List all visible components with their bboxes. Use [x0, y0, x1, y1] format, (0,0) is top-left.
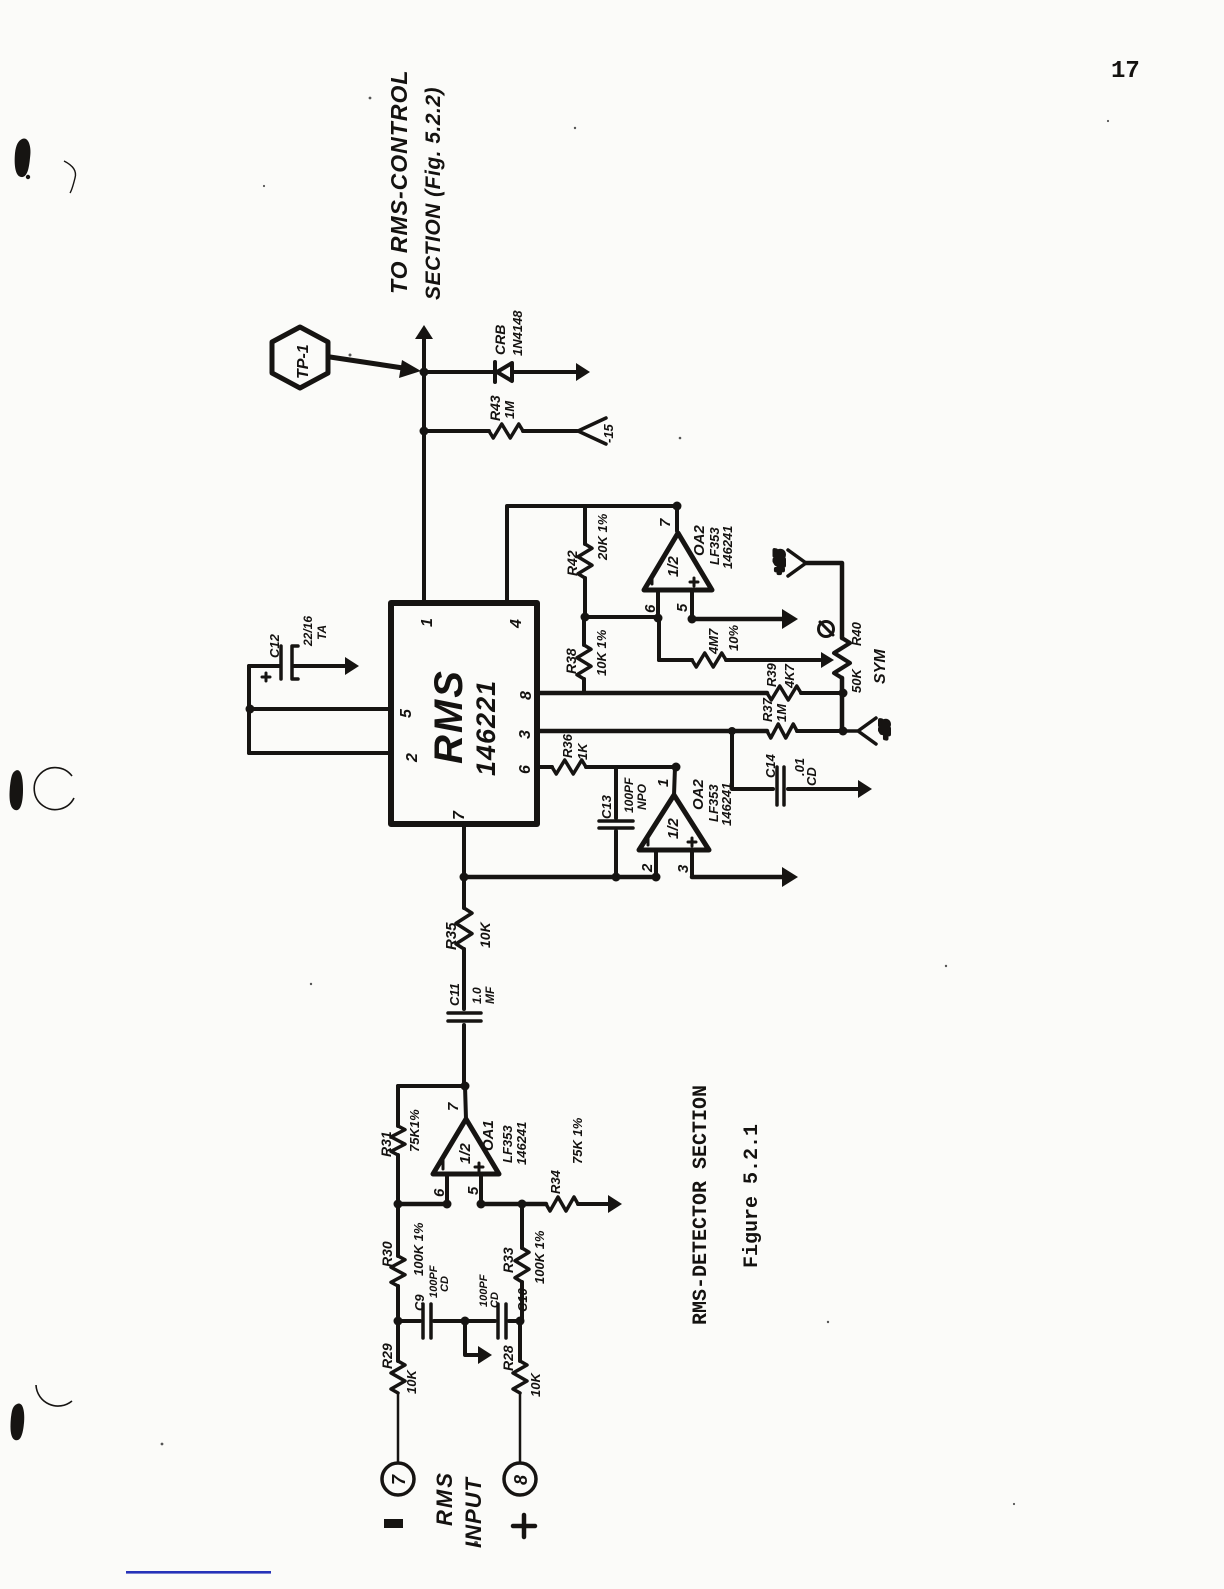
junction pin8 rail / supply rail — [839, 689, 848, 698]
RMS converter U1 146221 — [391, 603, 537, 824]
svg-text:C12: C12 — [267, 633, 282, 658]
wire: TP-1 arrow to output node — [330, 357, 421, 378]
wire: OA1 pin5 stub — [479, 1174, 483, 1204]
op-amp OA2 (1/2 LF353 146241) section B — [639, 795, 709, 850]
label C12 22/16 TA — [267, 616, 329, 658]
label C10 100PF CD — [478, 1274, 530, 1312]
junction R42/R38/pin6 — [581, 613, 590, 622]
svg-text:C14: C14 — [763, 753, 778, 778]
svg-text:R43: R43 — [487, 395, 503, 421]
svg-text:1.0: 1.0 — [470, 987, 484, 1004]
wire: R40 to +15 — [806, 563, 842, 638]
svg-text:10K 1%: 10K 1% — [594, 629, 609, 676]
test point TP-1 — [272, 327, 328, 388]
junction pin3 rail / -15 — [839, 727, 848, 736]
svg-text:8: 8 — [511, 1475, 531, 1485]
wire down into 4M7 — [659, 658, 692, 662]
label R39 4K7 — [764, 662, 797, 689]
wire: diode anode to common arrow — [514, 363, 590, 381]
svg-text:10K: 10K — [404, 1369, 419, 1394]
resistor R38 10K 1% — [577, 617, 591, 693]
wire: OA1 output stub — [465, 1086, 466, 1119]
label C11 1.0 MF — [447, 983, 497, 1006]
svg-text:R33: R33 — [500, 1247, 516, 1273]
paper speckles — [161, 97, 1110, 1545]
wire: R34 to common arrow — [578, 1195, 622, 1213]
resistor R42 20K 1% — [578, 506, 592, 617]
svg-text:4K7: 4K7 — [782, 663, 797, 689]
svg-text:1N4148: 1N4148 — [510, 310, 525, 356]
svg-text:146221: 146221 — [471, 680, 501, 776]
terminal 7 (RMS input -) — [382, 1463, 414, 1495]
svg-text:RMS: RMS — [432, 1471, 457, 1526]
wire: R36 to OA2b output node — [586, 765, 675, 769]
wire: C12 to common arrow — [294, 657, 359, 675]
svg-text:CRB: CRB — [492, 325, 508, 355]
resistor R36 1K — [552, 760, 586, 774]
terminal 8 (RMS input +) — [504, 1463, 536, 1495]
svg-text:146241: 146241 — [720, 526, 735, 569]
stray arc mark bottom-left — [36, 1385, 72, 1406]
blue pen underline bottom — [126, 1571, 271, 1574]
resistor R43 1M — [489, 424, 523, 438]
op-amp OA1 (1/2 LF353 146241) — [433, 1119, 499, 1174]
wire: RMS pin5 up to bypass rail — [250, 707, 391, 711]
wire: junction down to OA2a inverting input — [585, 615, 658, 619]
wire: C10 node into R33 — [520, 1282, 524, 1321]
wire: R37 to -15 node — [797, 729, 843, 733]
wire: R39 to supply rail — [801, 691, 843, 695]
stray circle mark middle-left — [34, 768, 74, 810]
svg-text:4: 4 — [508, 619, 525, 629]
svg-text:1/2: 1/2 — [665, 555, 682, 577]
svg-text:-15: -15 — [877, 719, 892, 739]
junction feedback top — [460, 873, 469, 882]
svg-text:R29: R29 — [379, 1343, 395, 1369]
junction R29/R30/C9 node — [394, 1317, 403, 1326]
wire: OA2b pin3 to common arrow — [692, 867, 798, 887]
svg-text:R37: R37 — [760, 697, 775, 722]
capacitor C10 100PF CD — [465, 1304, 520, 1338]
junction at OA1 pin6 — [443, 1200, 452, 1209]
svg-text:146241: 146241 — [514, 1122, 529, 1165]
svg-text:R36: R36 — [560, 733, 575, 758]
svg-text:7: 7 — [389, 1474, 409, 1485]
wire: OA2a pin6 node left — [657, 618, 661, 660]
svg-text:8: 8 — [518, 691, 535, 700]
svg-text:TP-1: TP-1 — [295, 344, 312, 379]
svg-text:100PF: 100PF — [622, 777, 636, 813]
stray arc mark top-left — [64, 161, 76, 193]
resistor R31 75K 1% (feedback) — [391, 1086, 405, 1204]
svg-text:4M7: 4M7 — [706, 628, 721, 655]
svg-text:7: 7 — [451, 810, 468, 820]
junction at OA1 pin5 — [477, 1200, 486, 1209]
label OA2 LF353 146241 — [691, 525, 735, 570]
resistor R33 100K 1% — [515, 1248, 529, 1282]
wire: bypass rail — [247, 666, 251, 753]
resistor R28 10K — [513, 1321, 527, 1463]
svg-text:NPO: NPO — [635, 783, 649, 810]
label R34 75K 1% — [548, 1117, 585, 1194]
junction pin5/C10 wire — [518, 1200, 527, 1209]
svg-text:Figure 5.2.1: Figure 5.2.1 — [741, 1124, 764, 1268]
resistor R35 10K — [456, 908, 472, 949]
svg-text:R28: R28 — [500, 1345, 516, 1371]
node label: TO RMS-CONTROL SECTION (Fig. 5.2.2) — [386, 70, 445, 300]
label R43 1M — [487, 395, 517, 421]
label R36 1K — [560, 733, 590, 760]
label R31 75K1% — [378, 1109, 422, 1157]
svg-text:CD: CD — [489, 1292, 501, 1308]
svg-text:TA: TA — [315, 625, 329, 640]
junction C13 left — [612, 873, 621, 882]
wire: RMS pin1 output to RMS-control section — [415, 325, 433, 603]
svg-text:C13: C13 — [599, 794, 614, 819]
junction OA2b output — [672, 763, 681, 772]
svg-text:SECTION (Fig. 5.2.2): SECTION (Fig. 5.2.2) — [422, 87, 445, 300]
label OA2 LF353 146241 (section B) — [690, 779, 734, 827]
diode CRB 1N4148 — [495, 362, 512, 382]
capacitor C11 1.0 MF — [448, 1013, 481, 1021]
label OA1 LF353 146241 — [480, 1120, 529, 1165]
svg-text:5: 5 — [398, 708, 415, 718]
wire: C14 to common arrow — [788, 780, 872, 798]
wire: OA2b pin2 stub — [654, 850, 658, 877]
svg-text:3: 3 — [675, 864, 692, 873]
label 4M7 10% — [706, 625, 741, 655]
svg-text:MF: MF — [483, 986, 497, 1004]
resistor R37 1M — [767, 724, 797, 738]
svg-text:INPUT: INPUT — [461, 1476, 486, 1548]
label R28 10K — [500, 1345, 543, 1397]
svg-text:R30: R30 — [379, 1241, 395, 1267]
wire: output node to diode CRB — [424, 370, 494, 374]
potentiometer R40 50K SYM — [834, 638, 850, 678]
junction C10/R28 node — [516, 1317, 525, 1326]
wire: supply rail to R40 — [840, 678, 845, 731]
polarity plus — [513, 1515, 535, 1537]
wire: output node up to R31 branch — [398, 1084, 465, 1088]
junction inverting input node — [394, 1200, 403, 1209]
label C14 .01 CD — [763, 753, 819, 786]
resistor 4M7 10% — [692, 653, 726, 667]
power -15 (R43) — [578, 418, 616, 444]
power +15 — [771, 550, 806, 576]
wire: OA2a pin6 stub — [656, 590, 660, 618]
svg-text:7: 7 — [445, 1102, 462, 1111]
svg-text:10K: 10K — [477, 921, 493, 948]
capacitor C14 .01 CD — [777, 767, 784, 805]
junction pin5 on bypass rail — [246, 705, 255, 714]
wire: RMS pin2 up to bypass rail — [249, 751, 391, 755]
svg-text:1K: 1K — [575, 742, 590, 760]
wire: OA2b pin3 stub — [690, 850, 694, 877]
junction at OA2a output corner — [673, 502, 682, 511]
junction at OA2a pin6 — [654, 614, 663, 623]
svg-text:1: 1 — [655, 779, 672, 787]
svg-text:1/2: 1/2 — [665, 817, 682, 839]
capacitor C9 100PF CD — [398, 1304, 462, 1338]
svg-text:100K 1%: 100K 1% — [532, 1230, 547, 1284]
wire: R35 to C11 — [462, 949, 466, 1009]
svg-text:TO RMS-CONTROL: TO RMS-CONTROL — [386, 70, 412, 294]
svg-text:R40: R40 — [849, 621, 864, 646]
svg-text:R38: R38 — [563, 648, 579, 674]
junction OA1 output node — [461, 1082, 470, 1091]
junction C14 branch on pin3 rail — [728, 727, 736, 735]
junction node at R43 branch — [420, 427, 429, 436]
hole punch blob top-left — [15, 138, 31, 177]
svg-text:R39: R39 — [764, 662, 779, 687]
wire: OA2a pin5 stub — [690, 590, 694, 619]
wire: pin3 rail to C14 — [732, 731, 773, 789]
svg-text:75K1%: 75K1% — [407, 1109, 422, 1152]
svg-text:10K: 10K — [528, 1372, 543, 1397]
label R42 20K 1% — [564, 513, 610, 576]
wire: OA1 pin6 stub — [445, 1174, 449, 1204]
svg-text:3: 3 — [517, 730, 534, 739]
label R33 100K 1% — [500, 1230, 547, 1284]
svg-text:1: 1 — [419, 618, 436, 627]
svg-text:5: 5 — [674, 603, 691, 612]
capacitor C12 22/16 TA (polarized) — [249, 646, 298, 681]
resistor R30 100K 1% — [391, 1204, 405, 1321]
resistor R39 4K7 — [767, 686, 801, 700]
wire: RMS pin7 node to OA2b inverting input — [464, 875, 656, 880]
label R38 10K 1% — [563, 629, 609, 676]
svg-text:CD: CD — [439, 1276, 451, 1292]
wire: inverting node down to pin6 stub — [398, 1202, 447, 1207]
svg-text:6: 6 — [517, 765, 534, 774]
svg-text:22/16: 22/16 — [301, 616, 315, 647]
svg-text:OA2: OA2 — [690, 779, 707, 811]
wire: OA2a pin5 to common arrow — [692, 609, 798, 629]
resistor R34 75K 1% — [546, 1197, 578, 1211]
svg-text:2: 2 — [404, 753, 421, 763]
svg-text:10%: 10% — [726, 625, 741, 651]
svg-text:1M: 1M — [502, 400, 517, 419]
adjustment symbol (slashed circle) — [819, 622, 834, 637]
svg-text:OA1: OA1 — [480, 1120, 497, 1151]
svg-text:RMS: RMS — [427, 669, 471, 764]
wire: C9/C10 mid to common arrow — [465, 1321, 492, 1364]
svg-text:2: 2 — [639, 863, 656, 873]
svg-text:-15: -15 — [601, 423, 616, 443]
label R37 1M — [760, 697, 789, 722]
label RMS INPUT — [432, 1471, 486, 1548]
wire: RMS pin7 to R35 — [462, 824, 466, 908]
capacitor C13 100PF NPO — [599, 767, 633, 877]
wire: output node into R43 — [424, 429, 489, 433]
junction C9/C10 midpoint — [461, 1317, 470, 1326]
svg-text:R35: R35 — [443, 922, 460, 950]
label R29 10K — [379, 1343, 419, 1394]
hole punch blob bottom-left — [10, 1403, 24, 1440]
wire: C11 to OA1 output node — [462, 1025, 466, 1086]
label CRB 1N4148 — [492, 310, 525, 356]
svg-text:17: 17 — [1111, 58, 1140, 85]
label C13 100PF NPO — [599, 777, 649, 819]
resistor R29 10K — [391, 1321, 405, 1463]
label C9 100PF CD — [412, 1265, 451, 1311]
wire: R43 to -15 supply — [523, 429, 577, 433]
svg-text:R34: R34 — [548, 1169, 563, 1194]
svg-text:LF353: LF353 — [500, 1125, 515, 1163]
svg-text:75K 1%: 75K 1% — [570, 1117, 585, 1164]
svg-text:C11: C11 — [447, 983, 462, 1006]
svg-text:+15: +15 — [771, 550, 787, 574]
svg-text:R31: R31 — [378, 1131, 394, 1157]
polarity minus — [384, 1519, 403, 1528]
op-amp OA2 (1/2 LF353 146241) section A — [644, 533, 712, 590]
label R30 100K 1% — [379, 1222, 426, 1276]
wire: pin5 node down — [481, 1202, 546, 1207]
wire: RMS pin3 rail — [537, 729, 767, 734]
wire: RMS pin6 stub — [537, 765, 552, 769]
svg-text:R42: R42 — [564, 550, 580, 576]
svg-text:CD: CD — [804, 767, 819, 786]
svg-text:C9: C9 — [412, 1294, 427, 1311]
svg-text:7: 7 — [657, 518, 674, 527]
svg-text:1M: 1M — [774, 703, 789, 722]
label R35 10K — [443, 921, 493, 950]
svg-text:SYM: SYM — [872, 649, 889, 684]
svg-text:C10: C10 — [515, 1287, 530, 1312]
wire: RMS pin8 rail — [537, 691, 767, 696]
svg-text:100K 1%: 100K 1% — [411, 1222, 426, 1276]
power -15 (pin3 rail) — [843, 718, 892, 744]
hole punch blob middle-left — [10, 770, 23, 810]
label 50K R40 SYM — [849, 621, 889, 693]
wire: RMS pin4 to OA2a output pin7 — [507, 506, 677, 603]
svg-text:1/2: 1/2 — [457, 1142, 474, 1164]
svg-text:RMS-DETECTOR SECTION: RMS-DETECTOR SECTION — [690, 1085, 713, 1325]
junction feedback at pin2 — [652, 873, 661, 882]
svg-text:50K: 50K — [849, 668, 864, 693]
svg-text:20K 1%: 20K 1% — [595, 513, 610, 561]
wire: 4M7 to wiper arrow of R40 — [726, 652, 834, 668]
junction node at diode branch — [420, 368, 429, 377]
wire: OA2b output stub — [674, 767, 675, 795]
svg-text:OA2: OA2 — [691, 525, 708, 557]
junction at OA2a pin5 — [688, 615, 697, 624]
wire: R33 to OA1 pin5 node — [520, 1204, 524, 1248]
